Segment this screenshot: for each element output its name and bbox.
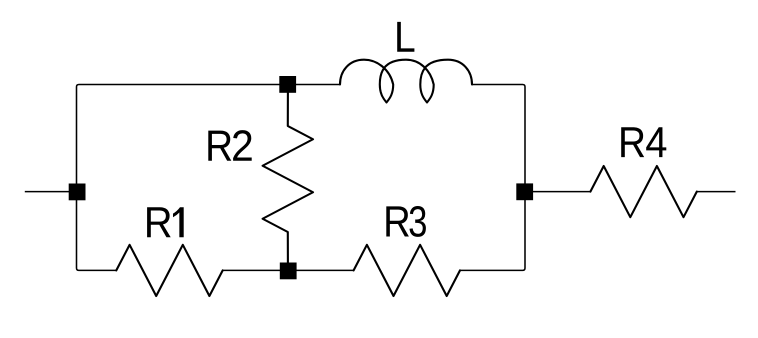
resistor R3	[354, 245, 460, 296]
wire bottom middle segment	[223, 269, 354, 271]
label R3	[386, 206, 426, 237]
node A (top) junction	[279, 76, 296, 93]
label L	[397, 22, 414, 52]
resistor R2	[263, 92, 313, 264]
wire left rail (top-left corner, left vertical, bottom-left corner)	[77, 85, 341, 271]
wire output from node to R4	[525, 191, 590, 193]
label R2	[208, 130, 251, 161]
node IN junction	[69, 184, 86, 201]
wire output stub after R4	[697, 191, 736, 193]
wire input stub	[25, 191, 70, 193]
resistor R1	[116, 245, 222, 296]
node B (bottom) junction	[280, 263, 297, 280]
label R1	[147, 207, 184, 237]
label R4	[621, 127, 666, 157]
wire right rail (top-right corner, right vertical, bottom-right corner)	[460, 85, 525, 271]
node OUT junction	[516, 183, 533, 200]
resistor R4	[590, 166, 696, 217]
inductor L	[340, 60, 472, 103]
